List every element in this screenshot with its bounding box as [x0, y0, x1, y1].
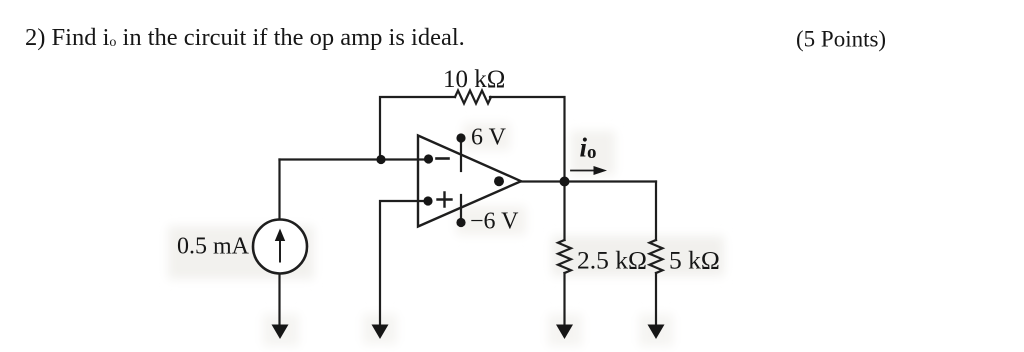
scan shading behind 0.5 mA label: [168, 226, 314, 279]
scan shading behind i_o label: [571, 131, 615, 175]
i_o arrow shaft: [571, 170, 597, 172]
wire: 5k branch bottom: [655, 273, 657, 326]
current source arrowhead: [275, 229, 285, 242]
current source I1 circle: [253, 220, 307, 274]
wire: 5k branch top: [655, 182, 657, 241]
wire: current source top: [278, 160, 280, 220]
scan smudge near 5k ground arrow: [639, 314, 673, 346]
i_o arrowhead: [594, 166, 608, 175]
wire: feedback top-left vertical: [380, 97, 455, 160]
node dot: output inside triangle: [494, 176, 504, 186]
ground arrowhead: current source: [272, 325, 289, 340]
svg-text:6 V: 6 V: [471, 125, 507, 151]
ground arrowhead: 5k: [648, 325, 665, 340]
wire: feedback top-right to output node: [490, 97, 565, 182]
node dot: +6V pin: [456, 133, 465, 142]
scan smudge near noninverting ground arrow: [363, 314, 397, 344]
current source arrow shaft: [279, 240, 281, 262]
wire: op-amp output to corner: [521, 180, 656, 182]
node dot: output node junction: [560, 177, 570, 187]
scan smudge near current-source ground arrow: [263, 314, 299, 346]
node dot: inverting junction: [376, 155, 385, 164]
scan shading behind -6 V label: [456, 206, 526, 235]
node dot: -6V pin: [456, 218, 465, 227]
op-amp power rail bottom segment: [460, 195, 462, 223]
ground arrowhead: 2.5k: [556, 325, 573, 340]
svg-text:2) Find io in the circuit if t: 2) Find io in the circuit if the op amp …: [25, 24, 465, 51]
op-amp U1 triangle: [418, 136, 521, 227]
scan shading behind 6 V label: [463, 123, 510, 150]
scan smudge near 2.5k ground arrow: [548, 314, 582, 346]
svg-text:5 kΩ: 5 kΩ: [669, 246, 720, 275]
svg-text:2.5 kΩ: 2.5 kΩ: [577, 246, 647, 275]
svg-text:10 kΩ: 10 kΩ: [443, 66, 505, 93]
wire: current source bottom: [278, 274, 280, 326]
wire: 2.5k branch bottom: [563, 273, 565, 326]
wire: 2.5k branch from node to resistor: [563, 182, 565, 241]
ground arrowhead: noninverting: [372, 325, 389, 340]
op-amp plus sign: [438, 193, 452, 207]
node dot: inverting input pin: [424, 154, 433, 163]
op-amp minus sign: [437, 157, 449, 160]
resistor R3 5k zigzag: [650, 240, 663, 273]
svg-text:−6 V: −6 V: [470, 209, 519, 235]
scan shading behind resistor labels: [552, 236, 724, 276]
resistor R2 2.5k zigzag: [558, 240, 571, 273]
resistor R_f 10k zigzag: [455, 91, 491, 104]
wire: noninverting input horizontal and ground drop: [380, 201, 428, 326]
op-amp power rail top segment: [460, 138, 462, 171]
svg-text:(5 Points): (5 Points): [796, 27, 886, 52]
wire: inverting input horizontal: [280, 158, 429, 160]
svg-text:0.5 mA: 0.5 mA: [177, 234, 250, 260]
node dot: noninverting input pin: [423, 196, 432, 205]
